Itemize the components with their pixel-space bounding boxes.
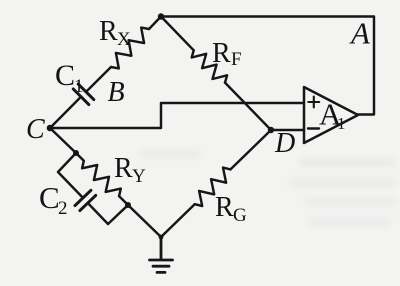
- resistor RF: [192, 50, 227, 82]
- wire C1 upper plate to RX: [86, 67, 111, 92]
- node J1 junction: [73, 150, 79, 156]
- node J2 junction: [125, 202, 131, 208]
- svg-text:R: R: [114, 153, 133, 184]
- node C junction: [47, 125, 54, 132]
- svg-text:1: 1: [74, 76, 84, 97]
- svg-text:2: 2: [58, 198, 68, 219]
- wire D to op-amp minus input: [271, 129, 304, 131]
- svg-text:X: X: [117, 29, 131, 50]
- svg-text:C: C: [55, 59, 75, 92]
- wire C2 upper plate to corner: [88, 203, 108, 224]
- op-amp A1: [304, 87, 358, 143]
- capacitor C2: [75, 190, 96, 210]
- node D junction: [268, 127, 274, 133]
- svg-text:C: C: [26, 114, 45, 145]
- svg-text:G: G: [233, 205, 247, 226]
- ground node junction: [159, 235, 164, 240]
- wire C to step to op-amp plus input: [50, 103, 304, 128]
- svg-text:R: R: [215, 192, 234, 223]
- node T junction: [158, 13, 164, 19]
- svg-text:B: B: [108, 77, 125, 108]
- wire J1 to C2 corner: [58, 153, 76, 172]
- wire RY to J2: [119, 196, 128, 205]
- wire J2 to ground node: [128, 205, 161, 237]
- svg-text:A: A: [349, 16, 371, 51]
- resistor RX: [111, 28, 149, 69]
- ground: [150, 237, 173, 272]
- wire RG to node D: [231, 130, 272, 169]
- capacitor C1: [73, 84, 94, 105]
- wire J1 to RY: [76, 153, 84, 161]
- wire C2 corner to J2: [108, 205, 128, 224]
- wire C to J1: [50, 128, 76, 153]
- wire RX to node T: [149, 17, 161, 30]
- resistor RG: [195, 168, 231, 206]
- wire RF to node D: [225, 83, 271, 130]
- wire C to C1 lower plate: [50, 97, 81, 128]
- wire T to RF: [161, 17, 194, 51]
- svg-text:1: 1: [337, 114, 346, 133]
- wire C2 corner to lower plate: [58, 172, 83, 198]
- svg-text:R: R: [99, 16, 118, 47]
- wire top: node T to top-right corner down to op-amp output: [161, 17, 374, 115]
- op-amp plus sign: [308, 97, 319, 108]
- svg-text:D: D: [274, 128, 295, 159]
- wire ground node to RG: [161, 204, 195, 237]
- svg-text:Y: Y: [132, 166, 146, 187]
- svg-text:F: F: [231, 49, 242, 70]
- resistor RY: [82, 161, 121, 196]
- svg-text:C: C: [39, 180, 60, 215]
- op-amp minus sign: [308, 127, 319, 129]
- svg-text:R: R: [212, 38, 231, 69]
